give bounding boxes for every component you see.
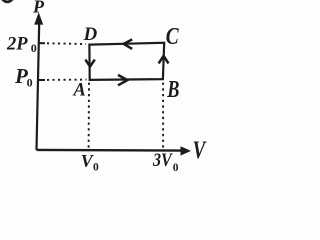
svg-text:0: 0 — [27, 76, 33, 90]
svg-text:2P: 2P — [6, 35, 28, 55]
svg-text:B: B — [166, 76, 179, 103]
svg-text:P: P — [32, 0, 45, 17]
svg-text:0: 0 — [173, 162, 179, 174]
svg-text:C: C — [166, 22, 179, 50]
svg-text:3V: 3V — [152, 149, 173, 171]
svg-text:0: 0 — [93, 162, 99, 174]
svg-text:0: 0 — [31, 41, 37, 55]
svg-text:V: V — [193, 136, 207, 164]
svg-text:A: A — [73, 81, 86, 101]
svg-text:D: D — [83, 24, 98, 45]
